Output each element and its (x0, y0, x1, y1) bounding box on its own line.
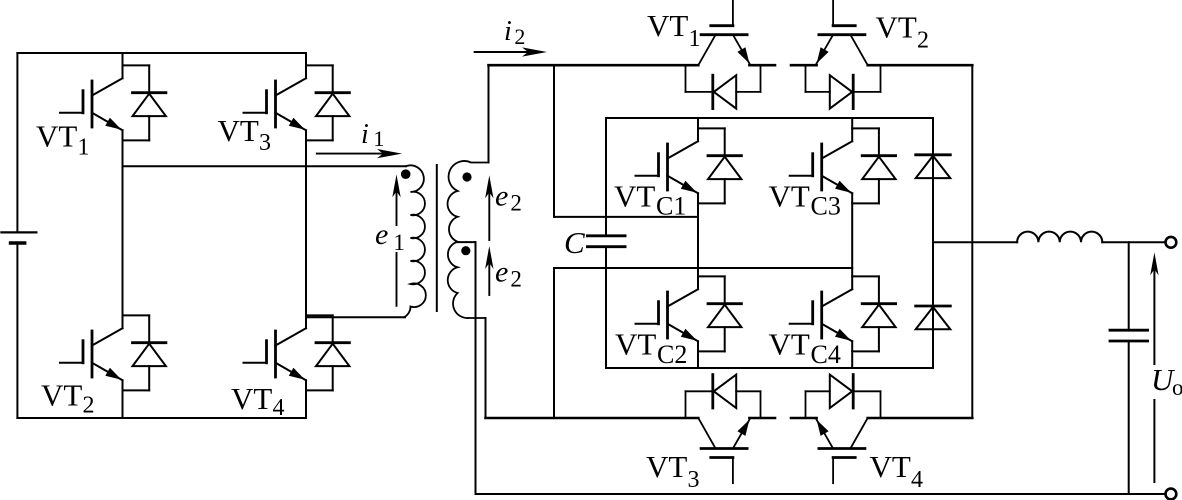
svg-text:o: o (1172, 375, 1182, 400)
svg-text:e: e (495, 256, 508, 289)
svg-text:i: i (504, 16, 512, 47)
svg-text:2: 2 (917, 28, 929, 54)
svg-text:VT: VT (231, 381, 272, 416)
svg-text:VT: VT (218, 113, 259, 148)
svg-text:4: 4 (273, 395, 285, 421)
svg-text:VT: VT (615, 327, 656, 362)
svg-text:C: C (564, 225, 585, 260)
svg-text:VT: VT (36, 119, 77, 154)
svg-text:2: 2 (83, 393, 95, 419)
svg-text:2: 2 (510, 191, 522, 216)
svg-text:C4: C4 (811, 340, 841, 369)
svg-text:e: e (375, 218, 388, 251)
svg-text:3: 3 (688, 467, 700, 493)
svg-text:3: 3 (259, 130, 271, 156)
svg-text:VT: VT (647, 8, 688, 43)
svg-text:VT: VT (646, 449, 687, 484)
svg-text:C2: C2 (657, 340, 687, 369)
svg-text:VT: VT (614, 178, 655, 213)
svg-text:1: 1 (689, 26, 701, 52)
svg-text:VT: VT (769, 178, 810, 213)
svg-text:C1: C1 (656, 192, 686, 221)
svg-text:2: 2 (510, 267, 522, 292)
svg-text:e: e (495, 180, 508, 213)
svg-text:i: i (361, 119, 369, 150)
svg-text:2: 2 (514, 24, 525, 49)
svg-text:VT: VT (876, 10, 917, 45)
svg-text:VT: VT (870, 449, 911, 484)
svg-text:C3: C3 (811, 192, 841, 221)
svg-text:1: 1 (78, 135, 90, 161)
svg-text:1: 1 (393, 230, 405, 255)
svg-text:VT: VT (41, 378, 82, 413)
svg-text:4: 4 (911, 467, 923, 493)
svg-text:VT: VT (769, 327, 810, 362)
svg-text:1: 1 (373, 126, 384, 151)
